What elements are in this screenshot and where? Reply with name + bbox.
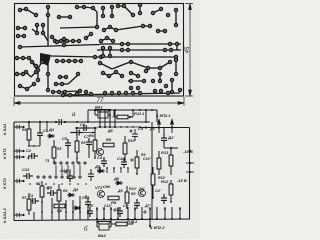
junction [179,218,181,220]
wire [131,73,138,76]
pad [63,38,66,41]
wire [14,156,24,158]
wire [103,73,109,76]
pad [42,24,45,27]
wire [113,168,115,173]
pad [109,26,112,29]
wire [41,197,43,202]
wire [175,10,177,25]
pad [137,75,140,78]
junction [94,127,96,129]
junction [110,218,112,220]
pad [69,94,72,97]
switch contact [43,176,45,178]
pad [60,40,63,43]
junction [33,145,35,147]
wire [127,207,129,220]
pad [149,25,152,28]
capacitor С4 [101,157,107,167]
pad [56,60,59,63]
pad [100,40,103,43]
wire [100,63,112,69]
wire [109,48,111,56]
wire [70,132,95,134]
wire [47,7,49,15]
wire [73,165,75,175]
loudspeaker ВА2 [97,222,111,231]
wire [58,201,60,206]
junction [113,167,115,169]
wire right rail [189,128,191,220]
junction [120,126,122,128]
wire [109,72,116,76]
pad [142,25,145,28]
pad [130,72,133,75]
junction [37,183,39,185]
wire [110,207,112,220]
wire [109,110,111,128]
junction [94,157,96,159]
wire [94,110,96,115]
pad [19,9,22,12]
pad [83,6,86,9]
junction [58,211,60,213]
junction [134,218,136,220]
plus mark [143,210,147,214]
wire [18,27,25,29]
wire [104,27,110,30]
terminal arrow [158,120,161,134]
switch contact [61,176,63,178]
wire [97,226,99,228]
pad [61,83,64,86]
wire [126,186,128,192]
pad [77,73,80,76]
pad [52,91,55,94]
wire [20,86,27,89]
resistor R1 [27,129,31,140]
junction [124,159,126,161]
resistor R12 [169,184,173,195]
wire [58,184,60,190]
wire [17,57,29,59]
wire [39,122,41,129]
pad [56,41,59,44]
pad [102,7,105,10]
wire [148,67,160,69]
pad [171,79,174,82]
pad [169,43,172,46]
wire [116,72,122,76]
pad [24,27,27,30]
pad [139,12,142,15]
wire top rail [88,109,157,111]
junction [114,126,116,128]
wire [136,150,138,157]
diode Д1 [47,134,55,138]
wire [163,128,165,137]
junction [94,109,96,111]
pad [36,24,39,27]
pad [165,85,168,88]
wire [127,223,133,225]
tap tick [17,179,20,183]
capacitor С13 [85,198,91,208]
wire [124,154,126,160]
junction [164,218,166,220]
wire [156,207,158,220]
wire input bus [14,121,150,123]
wire [143,25,150,27]
junction [103,208,105,210]
pad [111,15,114,18]
wire [63,93,180,95]
junction [22,126,24,128]
wire [87,110,89,122]
pad [22,57,25,60]
wire [111,7,113,16]
switch contact [67,176,69,178]
wire [42,25,44,33]
wire [111,223,116,225]
junction [170,201,172,203]
wire [60,27,97,28]
junction [110,208,112,210]
capacitor Д9 [134,199,140,209]
wire [109,226,111,228]
wire [60,76,66,78]
wire [102,48,104,56]
wire [14,126,24,128]
wire [53,40,81,42]
pad [76,6,79,9]
pad [35,71,38,74]
pad [59,76,62,79]
pad [159,73,162,76]
junction [132,126,134,128]
switch contact [66,162,68,164]
loudspeaker ВА1 [96,110,110,119]
pad [179,89,182,92]
junction [45,183,47,185]
pad [152,80,155,83]
pad [112,40,115,43]
wire [53,91,80,92]
wire [107,38,113,41]
pad [145,70,148,73]
switch contact [54,162,56,164]
wire [27,84,34,89]
wire [114,116,117,118]
pad [127,43,130,46]
pad [41,61,44,64]
wire [124,6,133,15]
wire [93,8,97,12]
pad [170,49,173,52]
pad [25,8,28,11]
pad [37,69,40,72]
wire [176,44,178,50]
pad [147,67,150,70]
diode Д5 [97,169,105,173]
wire [79,196,81,220]
wire [28,140,30,146]
pad [139,92,142,95]
junction [109,109,111,111]
wire [114,110,116,128]
wire [170,148,172,155]
capacitor С10 [121,158,127,168]
wire [139,5,141,13]
pad [132,14,135,17]
wire [29,58,36,66]
pad [72,40,75,43]
resistor R8 [103,143,114,147]
capacitor Д4' [161,194,167,204]
tap tick [17,213,20,217]
junction [120,167,122,169]
wire [53,140,55,147]
wire [96,207,98,220]
junction [71,132,73,134]
wire [79,165,81,175]
pad [28,57,31,60]
pad [90,93,93,96]
wire [99,110,101,128]
diode Д6 [115,181,123,185]
wire [170,195,172,202]
wire [158,169,160,175]
junction [151,109,153,111]
diode Д4 [73,206,81,210]
wire [134,207,136,220]
junction [87,211,89,213]
pad [117,5,120,8]
pad [159,67,162,70]
wire [128,116,133,118]
pad [90,33,93,36]
resistor R11 [157,158,161,169]
wire кп2.1 feed [140,127,190,129]
junction [28,121,30,123]
pad [35,14,38,17]
wire [171,207,173,220]
junction [41,211,43,213]
junction [136,173,138,175]
wire [145,110,147,122]
junction [114,109,116,111]
pad [58,91,61,94]
wire [132,110,134,117]
pad [175,24,178,27]
junction [69,183,71,185]
wire [106,168,108,173]
pad [109,47,112,50]
resistor R4 [57,190,61,201]
terminal arrow [171,120,174,134]
plus mark [113,208,117,212]
resistor R6 [54,204,65,208]
PCB ground-plane blob [40,53,51,66]
junction [104,126,106,128]
pad [69,16,72,19]
junction [55,121,57,123]
junction [64,121,66,123]
pad [66,40,69,43]
wire [32,29,37,33]
junction [145,126,147,128]
resistor R6' [93,140,97,151]
plus mark [64,170,68,174]
junction [189,162,191,164]
wire [32,62,37,70]
junction [85,183,87,185]
junction [99,109,101,111]
wire [179,207,181,220]
pad [130,87,133,90]
junction [164,208,166,210]
pad [31,61,34,64]
capacitor С4a [73,130,83,136]
tick mark [186,162,194,164]
pad [121,75,124,78]
wire [26,72,31,77]
wire [104,110,106,128]
wire [58,206,60,220]
capacitor С8' [67,172,73,182]
junction [58,205,60,207]
wire [76,152,78,158]
pad [47,6,50,9]
capacitor С2 [28,153,38,159]
pad [100,56,103,59]
pad [121,43,124,46]
pad [154,90,157,93]
junction [22,180,24,182]
wire [118,5,124,7]
switch contact [78,162,80,164]
wire [131,62,148,68]
wire [68,75,78,84]
switch contact [79,176,81,178]
transistor VТ3 [139,190,146,197]
wire [51,198,53,220]
pad [164,30,167,33]
junction [99,109,101,111]
dimension line width 77 [14,97,184,106]
plus mark [84,195,88,199]
transistor VТ1 [97,149,104,156]
wire [170,166,172,175]
pad [175,56,178,59]
wire [103,207,105,220]
junction [156,218,158,220]
tick mark [186,171,194,173]
pad [102,15,105,18]
wire [170,180,172,184]
capacitor С5' [47,190,57,196]
wire [14,150,24,152]
junction [55,121,57,123]
wire [175,60,177,74]
plus mark [46,186,50,190]
junction [141,218,143,220]
junction [117,218,119,220]
pad [130,80,133,83]
junction [76,127,78,129]
junction [109,126,111,128]
junction [64,121,66,123]
pad [102,55,105,58]
pad [17,35,20,38]
junction [152,197,154,199]
wire [20,45,100,48]
pad [159,80,162,83]
wire [152,185,154,198]
pad [85,91,88,94]
wire [75,127,97,129]
junction [53,183,55,185]
pad [68,60,71,63]
pad [125,92,128,95]
wire [76,134,78,141]
junction [61,183,63,185]
junction [65,211,67,213]
capacitor С9 [130,129,139,141]
junction [96,218,98,220]
wire [127,168,129,173]
junction [46,121,48,123]
wire [100,43,181,45]
junction [127,167,129,169]
junction [94,109,96,111]
junction [189,150,191,152]
junction [76,157,78,159]
junction [126,207,128,209]
wire [96,12,98,27]
junction [106,167,108,169]
switch contact [84,162,86,164]
wire [47,64,49,90]
wire [63,39,65,45]
pad [143,80,146,83]
resistor R9 [135,157,139,168]
pad [118,92,121,95]
wire [51,56,97,57]
junction [171,126,173,128]
wire [54,83,68,85]
wire [136,168,138,174]
wire [97,126,140,128]
capacitor С6 [80,125,90,131]
wire [99,168,101,173]
junction [149,218,151,220]
wire [39,139,41,146]
pad [16,73,19,76]
wire [132,219,134,224]
pad [137,87,140,90]
wire [20,9,26,10]
switch contact [37,176,39,178]
capacitor С15 [117,207,123,217]
capacitor С13' [88,169,94,181]
pad [65,76,68,79]
wire [164,147,178,149]
pad [94,56,97,59]
pad [157,30,160,33]
pad [62,94,65,97]
pad [19,85,22,88]
